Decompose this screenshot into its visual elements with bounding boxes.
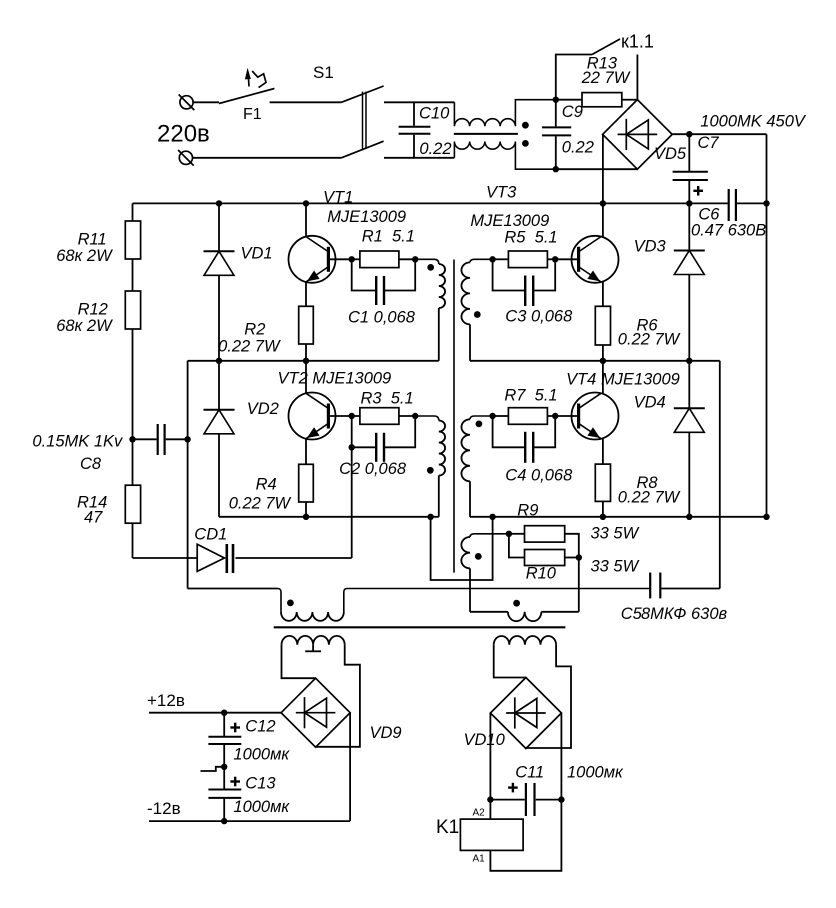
svg-text:33 5W: 33 5W	[591, 558, 640, 576]
svg-text:1000MK 450V: 1000MK 450V	[700, 113, 807, 131]
svg-text:0.22 7W: 0.22 7W	[618, 331, 681, 349]
svg-text:VD3: VD3	[634, 238, 667, 256]
svg-text:R10: R10	[526, 565, 557, 583]
svg-text:R11: R11	[78, 231, 107, 249]
svg-text:VD5: VD5	[654, 145, 687, 163]
svg-text:R2: R2	[244, 321, 265, 339]
svg-text:K1: K1	[436, 817, 459, 838]
svg-text:C11: C11	[515, 764, 544, 782]
svg-text:CD1: CD1	[194, 526, 227, 544]
svg-text:68к 2W: 68к 2W	[56, 317, 113, 335]
svg-text:F1: F1	[243, 106, 262, 123]
svg-text:VD10: VD10	[464, 731, 506, 749]
svg-text:0.22 7W: 0.22 7W	[618, 489, 681, 507]
svg-text:VT3: VT3	[486, 184, 517, 202]
svg-text:C5: C5	[621, 605, 643, 623]
svg-text:R4: R4	[256, 476, 277, 494]
svg-text:MJE13009: MJE13009	[470, 212, 549, 230]
svg-text:C10: C10	[419, 105, 450, 123]
svg-text:VT2 MJE13009: VT2 MJE13009	[278, 370, 392, 388]
svg-text:0.22: 0.22	[419, 140, 451, 158]
svg-text:C13: C13	[245, 775, 276, 793]
svg-text:68к 2W: 68к 2W	[56, 247, 113, 265]
svg-text:C4 0,068: C4 0,068	[505, 467, 573, 485]
svg-text:VD4: VD4	[634, 394, 666, 412]
svg-text:0.22 7W: 0.22 7W	[229, 495, 292, 513]
svg-text:8МКФ 630в: 8МКФ 630в	[641, 605, 727, 623]
svg-text:-12в: -12в	[147, 799, 181, 818]
svg-text:к1.1: к1.1	[621, 32, 654, 52]
svg-text:C7: C7	[698, 134, 720, 152]
svg-text:C12: C12	[245, 718, 275, 736]
svg-text:33 5W: 33 5W	[591, 525, 640, 543]
svg-text:R9: R9	[517, 502, 538, 520]
svg-text:+12в: +12в	[147, 691, 185, 710]
svg-text:R1 5.1: R1 5.1	[362, 228, 415, 246]
svg-text:S1: S1	[313, 63, 334, 82]
svg-text:VT1: VT1	[323, 189, 353, 207]
svg-text:R12: R12	[78, 301, 108, 319]
svg-text:R3 5.1: R3 5.1	[361, 390, 414, 408]
svg-text:VD9: VD9	[370, 724, 402, 742]
svg-text:VD2: VD2	[247, 400, 279, 418]
svg-text:47: 47	[84, 509, 103, 527]
svg-text:VD1: VD1	[241, 245, 273, 263]
svg-text:A1: A1	[473, 854, 486, 865]
svg-text:VT4 MJE13009: VT4 MJE13009	[566, 371, 680, 389]
svg-text:0.22 7W: 0.22 7W	[218, 338, 281, 356]
svg-text:0.47 630B: 0.47 630B	[691, 222, 766, 240]
svg-text:R7 5.1: R7 5.1	[504, 387, 557, 405]
svg-text:C3 0,068: C3 0,068	[505, 308, 573, 326]
svg-text:1000мк: 1000мк	[567, 764, 624, 782]
svg-text:1000мк: 1000мк	[233, 798, 290, 816]
svg-text:A2: A2	[473, 808, 486, 819]
svg-text:C1 0,068: C1 0,068	[348, 309, 416, 327]
svg-text:0.15MK 1Kv: 0.15MK 1Kv	[32, 433, 124, 451]
svg-text:0.22: 0.22	[562, 139, 594, 157]
svg-text:1000мк: 1000мк	[233, 746, 290, 764]
svg-text:C2 0,068: C2 0,068	[339, 460, 407, 478]
svg-text:R5 5.1: R5 5.1	[504, 229, 557, 247]
svg-text:C9: C9	[562, 103, 583, 121]
svg-text:C8: C8	[80, 455, 102, 473]
svg-text:MJE13009: MJE13009	[327, 208, 406, 226]
svg-text:22 7W: 22 7W	[581, 69, 631, 87]
svg-text:220в: 220в	[157, 121, 210, 148]
